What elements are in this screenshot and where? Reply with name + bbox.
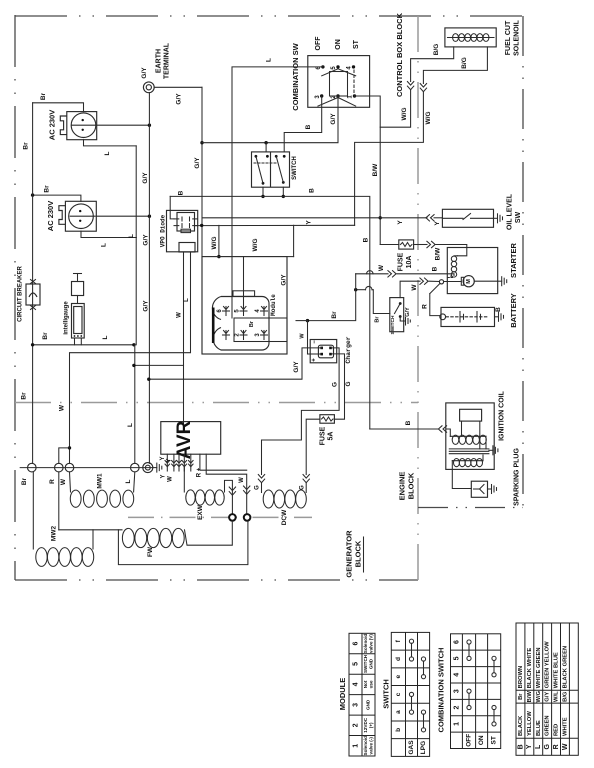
svg-text:G/Y: G/Y bbox=[176, 93, 183, 105]
svg-text:G: G bbox=[255, 485, 261, 490]
svg-text:Br: Br bbox=[374, 316, 380, 323]
wire Y-dot to fuse left bbox=[380, 244, 399, 246]
rotor axis dash line bbox=[128, 516, 312, 518]
wire B to solenoid bottom bbox=[356, 264, 454, 277]
G/Y bus vertical bbox=[142, 93, 150, 464]
svg-text:SWITCH: SWITCH bbox=[390, 315, 396, 334]
combination switch S1 box bbox=[291, 42, 370, 110]
svg-text:G/Y: G/Y bbox=[330, 113, 337, 125]
svg-text:SOLENOIL: SOLENOIL bbox=[513, 19, 520, 56]
svg-text:L: L bbox=[535, 744, 542, 749]
starter box bbox=[447, 242, 518, 293]
svg-text:B/G: B/G bbox=[433, 44, 440, 56]
svg-text:G/Y: G/Y bbox=[281, 274, 288, 286]
svg-text:CONTROL BOX BLOCK: CONTROL BOX BLOCK bbox=[395, 12, 404, 97]
combination switch wiper arrows bbox=[318, 69, 356, 106]
wire earth terminal to riser bbox=[154, 87, 202, 104]
svg-text:VPO Diode: VPO Diode bbox=[160, 214, 167, 247]
wire G/Y outlet1 earth to G/Y bus bbox=[97, 124, 151, 127]
svg-text:BLACK WHITE: BLACK WHITE bbox=[527, 648, 533, 689]
module inner box bbox=[234, 318, 287, 342]
wire B/G solenoid right pin bbox=[423, 47, 487, 84]
svg-text:Y: Y bbox=[434, 221, 441, 226]
svg-text:G: G bbox=[544, 744, 551, 750]
svg-text:CIRCUIT BREAKER: CIRCUIT BREAKER bbox=[18, 266, 24, 322]
wire L bus to AVR riser bbox=[132, 364, 183, 367]
AC outlet socket CN1 (AC 230V) bbox=[47, 110, 96, 140]
AVR pins Y Y W L bbox=[160, 454, 193, 482]
wire B/W combination pin1 to fuse 10A bbox=[355, 96, 382, 245]
svg-text:4: 4 bbox=[352, 682, 359, 686]
svg-text:GENERATOR: GENERATOR bbox=[344, 530, 353, 578]
svg-text:Y: Y bbox=[306, 220, 313, 225]
terminal W bbox=[60, 463, 74, 485]
svg-text:FUSE: FUSE bbox=[397, 252, 404, 271]
svg-text:B: B bbox=[305, 124, 312, 129]
svg-text:ENGINE: ENGINE bbox=[397, 472, 406, 501]
svg-text:G: G bbox=[332, 382, 339, 387]
svg-text:L: L bbox=[104, 151, 111, 155]
svg-text:W/G: W/G bbox=[401, 108, 408, 121]
generator terminal rail bbox=[20, 467, 152, 469]
svg-text:R: R bbox=[49, 479, 56, 484]
svg-text:6: 6 bbox=[352, 641, 359, 645]
fuel selector contacts bbox=[254, 155, 286, 185]
wire R relay to battery bbox=[422, 284, 440, 316]
svg-text:L: L bbox=[101, 243, 108, 247]
svg-text:SWITCH: SWITCH bbox=[292, 156, 298, 180]
fuel selector switch S2 box bbox=[252, 152, 299, 187]
wire Br to engine switch bbox=[354, 286, 390, 322]
wire module pin5 up bbox=[243, 257, 245, 307]
svg-text:(+): (+) bbox=[368, 722, 373, 728]
label GENERATOR BLOCK bbox=[344, 530, 363, 578]
svg-text:B/G: B/G bbox=[562, 691, 568, 702]
B bus wire bbox=[170, 188, 370, 429]
svg-text:3: 3 bbox=[453, 689, 460, 693]
battery BT1 bbox=[440, 293, 518, 328]
connector Y bbox=[426, 215, 441, 226]
svg-text:AC 230V: AC 230V bbox=[47, 110, 56, 140]
svg-text:Y: Y bbox=[160, 456, 166, 460]
fuse F2 5A bbox=[319, 415, 334, 446]
engine stop switch S4 bbox=[390, 298, 411, 335]
svg-text:BLACK GREEN: BLACK GREEN bbox=[562, 646, 568, 689]
block divider vertical (generator / control-engine) bbox=[417, 16, 419, 580]
svg-text:use: use bbox=[368, 680, 373, 688]
svg-text:B: B bbox=[432, 266, 439, 271]
svg-text:AC 230V: AC 230V bbox=[46, 201, 55, 231]
svg-text:W: W bbox=[299, 333, 305, 339]
svg-text:d: d bbox=[395, 657, 402, 661]
svg-text:TERMINAL: TERMINAL bbox=[163, 42, 170, 79]
svg-text:DCW: DCW bbox=[281, 509, 288, 525]
svg-text:BROWN: BROWN bbox=[518, 666, 524, 689]
svg-text:GND: GND bbox=[366, 699, 371, 710]
svg-text:Br: Br bbox=[42, 332, 49, 340]
outer border top bbox=[15, 15, 523, 17]
svg-text:Br: Br bbox=[23, 142, 30, 150]
module pins row 1 2 3 bbox=[223, 320, 268, 339]
svg-text:SWITCH: SWITCH bbox=[381, 679, 390, 709]
svg-text:STARTER: STARTER bbox=[509, 242, 518, 277]
wire B/G solenoid left pin bbox=[411, 44, 454, 82]
svg-text:Br: Br bbox=[249, 320, 255, 327]
svg-text:1: 1 bbox=[352, 744, 359, 748]
svg-text:GND: GND bbox=[368, 658, 373, 669]
terminal L bbox=[125, 463, 139, 483]
connector G right bbox=[300, 475, 310, 490]
ignition core bbox=[449, 446, 498, 455]
svg-text:e: e bbox=[395, 674, 402, 678]
svg-text:10A: 10A bbox=[406, 256, 413, 269]
svg-text:B: B bbox=[178, 190, 185, 195]
wire L outlet2 to L bus bbox=[81, 231, 136, 247]
terminal Br bbox=[21, 463, 36, 485]
svg-text:5A: 5A bbox=[327, 432, 334, 441]
svg-text:B: B bbox=[405, 420, 412, 425]
svg-text:OFF: OFF bbox=[466, 734, 473, 747]
svg-text:Br: Br bbox=[331, 311, 338, 319]
wire Br outlet1 to Br bus bbox=[33, 92, 84, 111]
svg-text:G/Y: G/Y bbox=[545, 692, 551, 702]
svg-text:GREEN YELLOW: GREEN YELLOW bbox=[545, 641, 551, 688]
block divider horizontal (generator block top) bbox=[15, 402, 418, 404]
fuse F1 10A bbox=[397, 240, 413, 271]
svg-text:G/Y: G/Y bbox=[194, 157, 201, 169]
connector W/G-A bbox=[401, 82, 414, 121]
wire W/G-B down-left-down bbox=[355, 92, 424, 225]
wire G charger right upper bbox=[262, 348, 340, 475]
svg-text:ON: ON bbox=[335, 39, 342, 50]
ignition secondary winding bbox=[452, 455, 483, 489]
svg-text:b: b bbox=[395, 728, 402, 732]
svg-text:G/Y: G/Y bbox=[143, 234, 150, 246]
svg-text:L: L bbox=[266, 58, 273, 62]
wire L to combination pin6 bbox=[232, 58, 323, 318]
connector G left bbox=[255, 475, 265, 490]
svg-text:R +: R + bbox=[197, 467, 203, 477]
wire fuse right B/W to starter solenoid bbox=[414, 241, 467, 260]
svg-text:G: G bbox=[300, 485, 306, 490]
wire G/Y module right bbox=[281, 225, 294, 285]
svg-text:WHITE BLUE: WHITE BLUE bbox=[554, 652, 560, 688]
VPO diode D1 box bbox=[160, 210, 198, 251]
intelligauge meter bbox=[64, 296, 85, 339]
wire R terminal to FW node bbox=[59, 472, 93, 530]
wire G/Y bus to fuel switch bbox=[265, 143, 267, 152]
charger connector bbox=[312, 340, 334, 362]
svg-text:Not: Not bbox=[363, 680, 368, 688]
svg-text:YELLOW: YELLOW bbox=[527, 711, 533, 736]
svg-text:L: L bbox=[102, 335, 109, 339]
svg-text:M: M bbox=[466, 279, 472, 284]
svg-text:Y: Y bbox=[397, 220, 404, 225]
svg-text:W/G: W/G bbox=[252, 239, 259, 252]
starter solenoid coil bbox=[451, 256, 457, 277]
svg-text:W: W bbox=[60, 478, 67, 485]
svg-text:W/L: W/L bbox=[554, 691, 560, 702]
svg-text:valve (-): valve (-) bbox=[368, 737, 373, 755]
combination switch pins bbox=[315, 65, 356, 98]
AVR box bbox=[161, 420, 221, 459]
module connector stadium bbox=[212, 291, 269, 350]
G/Y riser node A bbox=[194, 87, 203, 256]
EXW winding bbox=[184, 466, 235, 520]
ignition coil T1 box bbox=[446, 390, 506, 469]
wire Br charger drop bbox=[296, 319, 320, 354]
svg-text:B: B bbox=[363, 237, 370, 242]
svg-text:WHITE GREEN: WHITE GREEN bbox=[536, 647, 542, 688]
VPO diode lower connector bbox=[179, 243, 195, 256]
svg-text:Br: Br bbox=[43, 185, 50, 193]
svg-text:Y: Y bbox=[526, 744, 533, 749]
table wire colour legend bbox=[516, 623, 578, 755]
svg-text:−: − bbox=[312, 340, 318, 344]
svg-text:MW1: MW1 bbox=[96, 473, 103, 489]
brush left bbox=[229, 514, 236, 521]
svg-text:R: R bbox=[553, 744, 560, 749]
svg-text:4: 4 bbox=[453, 673, 460, 677]
FW winding bbox=[118, 521, 248, 565]
svg-text:intelligauge: intelligauge bbox=[64, 301, 70, 335]
svg-text:L: L bbox=[128, 234, 135, 238]
svg-text:B/G: B/G bbox=[461, 57, 468, 69]
svg-text:Solenoid: Solenoid bbox=[363, 634, 368, 654]
svg-text:OFF: OFF bbox=[315, 36, 322, 51]
wire fuel switch to B bus bbox=[261, 187, 285, 198]
wire G fuse 5A left to DCW bbox=[306, 419, 320, 474]
svg-text:FW: FW bbox=[147, 546, 154, 557]
wire B combination pin3 bbox=[284, 96, 322, 152]
svg-text:IGNITION COIL: IGNITION COIL bbox=[498, 390, 505, 441]
svg-text:+: + bbox=[312, 358, 318, 362]
svg-text:W: W bbox=[562, 743, 569, 750]
label B at VPO bbox=[178, 190, 185, 195]
svg-text:G: G bbox=[345, 381, 352, 386]
MW1 winding bbox=[70, 472, 135, 507]
svg-text:ST: ST bbox=[491, 736, 498, 744]
svg-text:c: c bbox=[395, 692, 402, 696]
svg-text:GAS: GAS bbox=[408, 740, 415, 755]
wire B to ignition coil bbox=[370, 420, 451, 436]
brush right bbox=[244, 514, 251, 521]
outer border left bbox=[14, 15, 16, 580]
label ENGINE BLOCK bbox=[397, 472, 415, 501]
svg-text:B: B bbox=[309, 188, 316, 193]
svg-text:BLOCK: BLOCK bbox=[406, 472, 415, 499]
svg-text:BLUE: BLUE bbox=[536, 720, 542, 736]
svg-text:a: a bbox=[395, 710, 402, 714]
wire L from VPO to L bus bbox=[184, 255, 191, 423]
wire W/G-A down to pin1 riser bbox=[380, 90, 410, 127]
fuel cut solenoid Y1 bbox=[445, 19, 520, 56]
svg-text:OIL LEVEL: OIL LEVEL bbox=[506, 193, 513, 230]
earth terminal E1 bbox=[141, 42, 170, 93]
svg-text:Y: Y bbox=[167, 458, 173, 462]
module M1 box bbox=[202, 257, 287, 354]
svg-text:W: W bbox=[177, 312, 183, 318]
svg-text:BLACK: BLACK bbox=[518, 715, 524, 736]
svg-text:W: W bbox=[168, 476, 174, 482]
outer border bottom bbox=[15, 579, 418, 581]
svg-text:G/Y: G/Y bbox=[141, 67, 148, 79]
svg-text:5: 5 bbox=[352, 662, 359, 666]
svg-text:1: 1 bbox=[453, 722, 460, 726]
svg-text:W/G: W/G bbox=[425, 112, 432, 125]
Br bus vertical bbox=[20, 103, 32, 464]
wire W/G drop to module bbox=[217, 225, 220, 258]
module pins row 6 5 4 bbox=[217, 307, 267, 316]
svg-text:L: L bbox=[184, 298, 190, 302]
wire G charger right lower to fuse 5A bbox=[332, 354, 352, 419]
svg-text:GREEN: GREEN bbox=[545, 715, 551, 736]
svg-text:B/W: B/W bbox=[435, 247, 442, 261]
svg-text:R: R bbox=[422, 304, 429, 309]
svg-text:EARTH: EARTH bbox=[155, 49, 162, 73]
svg-text:Br: Br bbox=[20, 392, 27, 400]
ignition primary winding bbox=[450, 435, 486, 449]
wire W engine switch to relay bbox=[400, 278, 439, 298]
svg-text:COMBINATION SW: COMBINATION SW bbox=[291, 42, 300, 110]
circuit breaker CB1 bbox=[18, 266, 40, 322]
svg-text:B: B bbox=[495, 307, 502, 312]
svg-text:Br: Br bbox=[21, 477, 28, 485]
svg-text:Solenoid: Solenoid bbox=[363, 736, 368, 756]
svg-text:Br: Br bbox=[40, 92, 47, 100]
svg-text:W: W bbox=[378, 264, 385, 271]
svg-text:B/W: B/W bbox=[372, 163, 379, 177]
combination switch position labels OFF ON ST bbox=[315, 36, 360, 51]
svg-text:5: 5 bbox=[453, 656, 460, 660]
svg-text:valve (V): valve (V) bbox=[368, 634, 373, 653]
AC outlet socket CN2 (AC 230V) bbox=[46, 201, 96, 231]
svg-text:BATTERY: BATTERY bbox=[509, 293, 518, 328]
svg-text:COMBINATION SWITCH: COMBINATION SWITCH bbox=[436, 648, 445, 733]
svg-text:2: 2 bbox=[453, 705, 460, 709]
MW2 winding bbox=[33, 472, 118, 566]
svg-text:MW2: MW2 bbox=[51, 526, 58, 542]
VPO diode upper connector bbox=[174, 213, 198, 233]
svg-text:G/Y: G/Y bbox=[293, 361, 300, 373]
oil level switch S3 bbox=[442, 193, 521, 230]
terminal R bbox=[49, 463, 63, 484]
wire L outlet1 to L bus bbox=[84, 140, 137, 156]
svg-text:W/G: W/G bbox=[211, 237, 218, 250]
svg-text:BLOCK: BLOCK bbox=[353, 540, 362, 567]
svg-text:Charger: Charger bbox=[345, 336, 352, 363]
outer border right (control/engine block right edge) bbox=[522, 16, 524, 509]
connector W/G-B bbox=[420, 84, 432, 125]
engine block bottom border bbox=[418, 507, 523, 509]
wire R jog bbox=[59, 448, 70, 463]
svg-text:L: L bbox=[125, 479, 132, 483]
svg-text:RED: RED bbox=[554, 724, 560, 736]
label CONTROL BOX BLOCK bbox=[395, 12, 404, 97]
table MODULE bbox=[338, 633, 375, 756]
wire G/Y charger to generator earth bbox=[147, 348, 322, 381]
svg-text:L: L bbox=[127, 423, 134, 427]
svg-text:ON: ON bbox=[478, 735, 485, 745]
svg-text:SPARKING PLUG: SPARKING PLUG bbox=[513, 448, 520, 506]
svg-text:Br: Br bbox=[518, 693, 524, 700]
svg-text:G/Y: G/Y bbox=[405, 307, 411, 317]
svg-text:2: 2 bbox=[352, 723, 359, 727]
svg-text:Y: Y bbox=[161, 474, 167, 478]
svg-text:ST: ST bbox=[353, 39, 360, 49]
svg-text:FUSE: FUSE bbox=[319, 426, 326, 445]
wire W/G horizontal bbox=[195, 224, 355, 252]
wire G/Y outlet2 earth to G/Y bus bbox=[96, 215, 151, 218]
svg-text:G/Y: G/Y bbox=[142, 172, 149, 184]
intelligauge sensor coil bbox=[72, 274, 84, 296]
svg-text:SWITCH: SWITCH bbox=[363, 654, 368, 673]
svg-text:MODULE: MODULE bbox=[338, 678, 347, 711]
table SWITCH bbox=[381, 632, 429, 756]
svg-text:6: 6 bbox=[453, 640, 460, 644]
wire Br-L intelligauge row bbox=[31, 332, 136, 347]
Y wire to oil level switch bbox=[203, 218, 443, 225]
terminal G/Y earth bbox=[143, 463, 162, 473]
charger box bbox=[310, 336, 352, 363]
AVR R+ pins bbox=[197, 454, 250, 514]
wire W node vertical bbox=[308, 274, 356, 321]
svg-text:FUEL CUT: FUEL CUT bbox=[505, 20, 512, 55]
svg-text:SW: SW bbox=[515, 211, 522, 223]
svg-text:W/G: W/G bbox=[536, 690, 542, 702]
svg-text:Module: Module bbox=[270, 294, 277, 316]
spark plug P1 bbox=[471, 448, 520, 506]
wire G/Y combination pin2 to earth node bbox=[202, 96, 338, 144]
svg-text:W: W bbox=[239, 477, 245, 483]
svg-text:WHITE: WHITE bbox=[562, 717, 568, 736]
svg-text:3: 3 bbox=[352, 703, 359, 707]
svg-text:W: W bbox=[411, 284, 418, 291]
starter relay contact bbox=[439, 276, 461, 284]
svg-text:AVR: AVR bbox=[174, 420, 195, 459]
svg-text:LPG: LPG bbox=[420, 741, 427, 754]
starter motor M bbox=[461, 276, 506, 287]
svg-text:W: W bbox=[59, 404, 66, 411]
svg-text:G/Y: G/Y bbox=[143, 300, 150, 312]
table COMBINATION SWITCH bbox=[436, 634, 500, 749]
L bus vertical bbox=[127, 146, 136, 463]
wire W from VPO to terminal W bbox=[59, 255, 191, 463]
svg-text:B/W: B/W bbox=[527, 691, 533, 703]
DCW winding bbox=[262, 483, 307, 525]
svg-text:12VDC: 12VDC bbox=[363, 717, 368, 732]
ignition condenser bbox=[460, 409, 482, 449]
svg-text:B: B bbox=[517, 744, 524, 749]
wire Br outlet2 to Br bus bbox=[31, 185, 81, 201]
